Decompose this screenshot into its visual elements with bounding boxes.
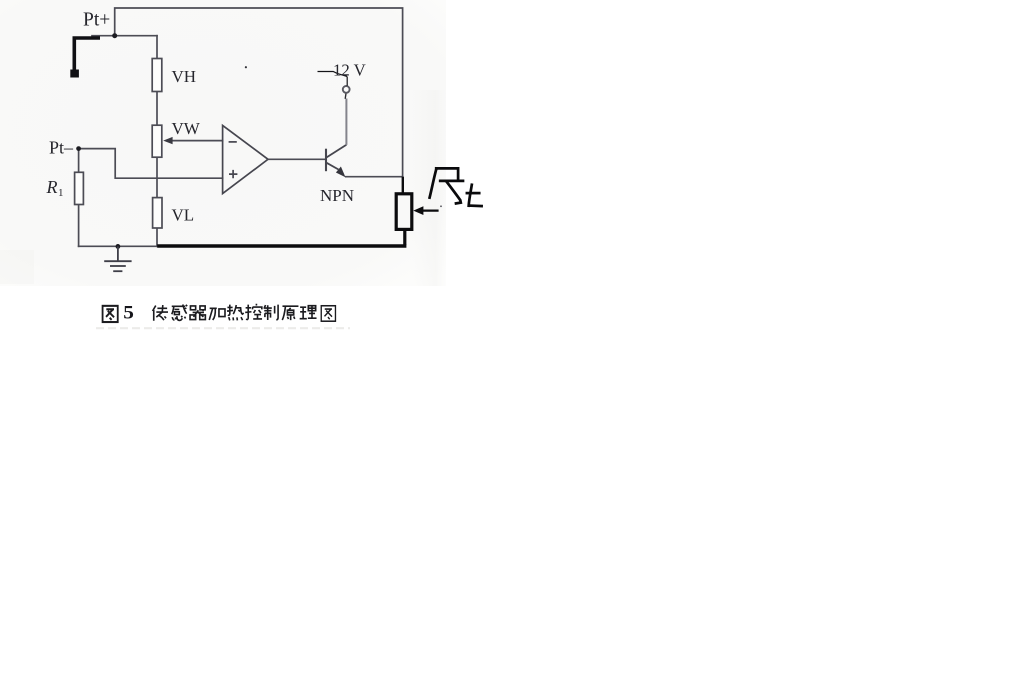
svg-text:Pt–: Pt– <box>49 138 74 158</box>
svg-text:12 V: 12 V <box>333 60 366 79</box>
svg-text:NPN: NPN <box>320 186 354 205</box>
svg-text:1: 1 <box>58 187 64 199</box>
svg-text:VL: VL <box>172 206 195 225</box>
svg-text:R: R <box>46 177 58 197</box>
svg-text:Pt+: Pt+ <box>83 10 110 31</box>
svg-text:VH: VH <box>172 67 197 86</box>
svg-text:VW: VW <box>172 119 201 138</box>
svg-text:5: 5 <box>123 303 134 323</box>
